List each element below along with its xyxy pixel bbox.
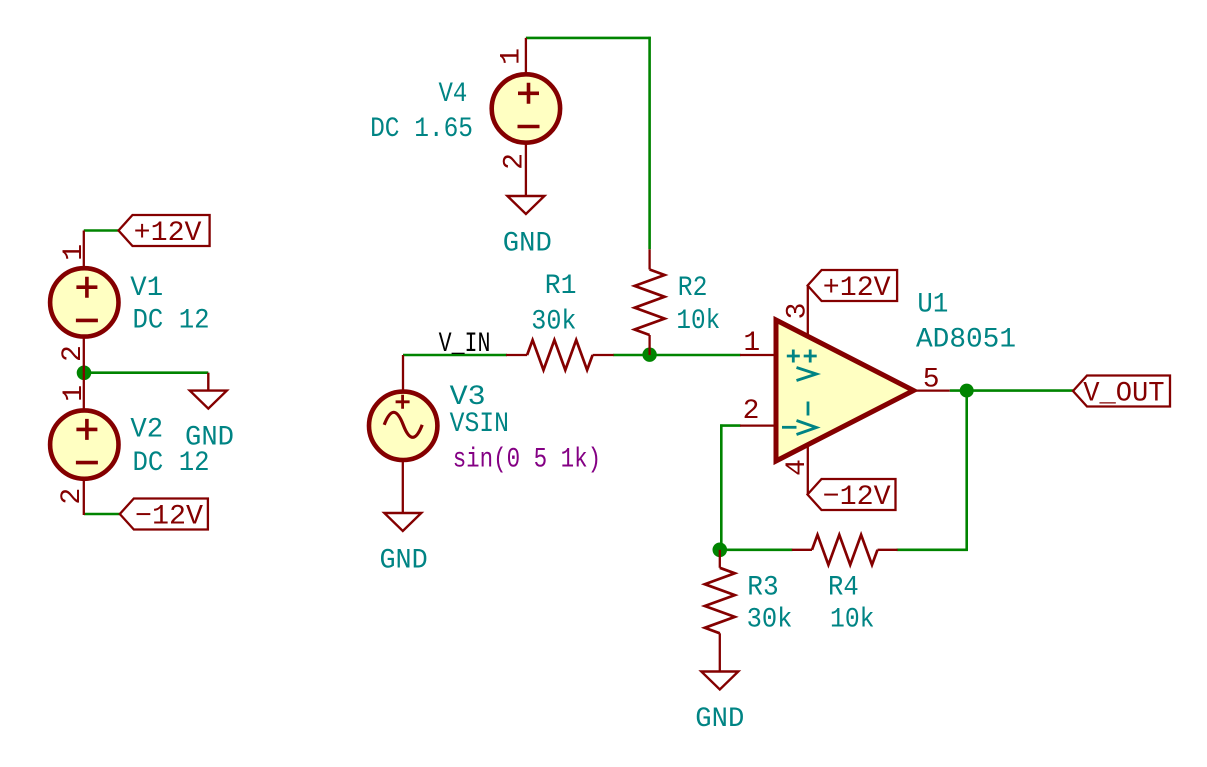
svg-text:+12V: +12V bbox=[823, 273, 891, 304]
ground GND (V4) bbox=[507, 196, 544, 214]
V3 pin 1 stub bbox=[402, 355, 404, 392]
R3 bottom lead bbox=[719, 633, 721, 671]
svg-text:5: 5 bbox=[923, 365, 940, 396]
junction node R3/R4 feedback bbox=[713, 543, 728, 558]
svg-text:1: 1 bbox=[497, 48, 528, 65]
op-amp U1 triangle bbox=[776, 320, 914, 461]
svg-text:2: 2 bbox=[58, 345, 89, 362]
U1 pin 1 stub bbox=[740, 354, 778, 356]
wire V4 pin1 horizontal top bbox=[526, 37, 651, 40]
svg-text:V4: V4 bbox=[439, 79, 468, 110]
svg-text:VSIN: VSIN bbox=[450, 409, 509, 440]
V2 pin 2 stub bbox=[83, 479, 85, 515]
V1 pin 2 stub bbox=[83, 337, 85, 373]
svg-text:sin(0 5 1k): sin(0 5 1k) bbox=[453, 445, 601, 476]
global label V_OUT bbox=[1073, 376, 1170, 410]
voltage source V2 bbox=[50, 410, 118, 478]
svg-text:GND: GND bbox=[695, 704, 744, 735]
R1 right lead bbox=[593, 354, 614, 356]
global label +12V (U1 pin3) bbox=[808, 270, 898, 304]
global label -12V (V2) bbox=[120, 499, 208, 533]
junction node R1/R2/U1 input bbox=[642, 348, 656, 362]
svg-text:V_OUT: V_OUT bbox=[1083, 379, 1164, 410]
svg-text:R2: R2 bbox=[678, 273, 708, 304]
U1 V- label V (rotated) bbox=[797, 421, 817, 435]
R3 top lead bbox=[719, 550, 721, 568]
wire top corner down to R2 bbox=[648, 37, 651, 250]
V4 pin 1 stub bbox=[525, 38, 527, 75]
svg-text:−12V: −12V bbox=[823, 482, 891, 513]
wire U1 pin2 horizontal bbox=[720, 424, 740, 427]
wire R4 right to output column bbox=[897, 548, 968, 551]
U1 pin 2 stub bbox=[740, 424, 778, 426]
wire feedback left vertical bbox=[720, 424, 723, 549]
wire U1 output to V_OUT label bbox=[950, 389, 1073, 392]
R4 right lead bbox=[878, 549, 898, 551]
svg-text:10k: 10k bbox=[676, 306, 720, 337]
svg-text:1: 1 bbox=[743, 328, 760, 359]
resistor R3 bbox=[705, 568, 735, 634]
U1 non-inverting input plus bbox=[787, 350, 800, 363]
V3 pin 2 stub bbox=[402, 459, 404, 513]
sine source V3 bbox=[369, 392, 437, 460]
U1 V+ label V (rotated) bbox=[797, 368, 817, 381]
R4 left lead bbox=[792, 549, 812, 551]
svg-text:R3: R3 bbox=[747, 572, 778, 603]
R2 top lead bbox=[648, 249, 650, 269]
wire V3 to R1 (V_IN net) bbox=[403, 354, 507, 357]
resistor R2 bbox=[635, 270, 665, 336]
svg-text:R1: R1 bbox=[545, 271, 577, 302]
wire node to R4 left bbox=[719, 548, 793, 551]
V2 pin 1 stub bbox=[83, 373, 85, 411]
svg-text:2: 2 bbox=[743, 396, 760, 427]
ground GND (R3) bbox=[701, 672, 738, 690]
svg-text:R4: R4 bbox=[828, 572, 859, 603]
svg-text:GND: GND bbox=[185, 423, 234, 454]
svg-text:V_IN: V_IN bbox=[439, 329, 491, 360]
wire R1 to U1 pin1 through node bbox=[613, 354, 740, 357]
global label +12V (V1) bbox=[119, 215, 210, 249]
svg-text:+12V: +12V bbox=[134, 218, 202, 249]
junction node V1-V2 midpoint bbox=[77, 366, 92, 381]
ground GND (V1/V2 midpoint) bbox=[190, 373, 227, 409]
U1 V+ label plus (rotated) bbox=[804, 350, 817, 363]
R1 left lead bbox=[506, 354, 527, 356]
svg-text:30k: 30k bbox=[531, 306, 576, 337]
junction node output bbox=[960, 384, 974, 398]
svg-text:AD8051: AD8051 bbox=[916, 325, 1016, 356]
voltage source V1 bbox=[50, 268, 118, 336]
svg-text:4: 4 bbox=[782, 459, 813, 476]
V4 pin 2 stub bbox=[525, 141, 527, 196]
svg-text:30k: 30k bbox=[747, 605, 793, 636]
svg-text:1: 1 bbox=[59, 385, 90, 402]
svg-text:U1: U1 bbox=[917, 289, 948, 320]
V1 pin 1 stub bbox=[83, 231, 85, 269]
U1 pin 5 stub bbox=[911, 389, 950, 391]
svg-text:DC 12: DC 12 bbox=[133, 306, 210, 337]
svg-text:V1: V1 bbox=[130, 273, 163, 304]
wire V1/V2 midpoint to GND bbox=[84, 371, 208, 374]
svg-text:2: 2 bbox=[500, 153, 531, 170]
svg-text:3: 3 bbox=[782, 303, 813, 320]
voltage source V4 bbox=[492, 74, 560, 142]
U1 pin 4 stub bbox=[807, 442, 809, 495]
wire output node down bbox=[965, 391, 968, 551]
U1 pin 3 stub bbox=[807, 286, 809, 340]
R2 bottom lead bbox=[648, 335, 650, 355]
wire V2 pin2 to -12V label bbox=[84, 513, 120, 516]
svg-text:GND: GND bbox=[379, 545, 427, 576]
svg-text:V2: V2 bbox=[130, 414, 163, 445]
svg-text:1: 1 bbox=[59, 244, 90, 261]
U1 inverting input minus bbox=[782, 426, 797, 429]
wire V1 pin1 to +12V label bbox=[84, 229, 119, 232]
svg-text:GND: GND bbox=[503, 228, 552, 259]
ground GND (V3) bbox=[384, 513, 421, 531]
svg-text:2: 2 bbox=[57, 488, 88, 505]
svg-text:DC 1.65: DC 1.65 bbox=[370, 114, 473, 145]
svg-text:10k: 10k bbox=[830, 605, 875, 636]
resistor R1 bbox=[527, 340, 593, 370]
svg-text:−12V: −12V bbox=[135, 502, 203, 533]
resistor R4 bbox=[812, 535, 878, 565]
global label -12V (U1 pin4) bbox=[808, 479, 896, 513]
U1 V- label minus (rotated) bbox=[807, 402, 810, 416]
